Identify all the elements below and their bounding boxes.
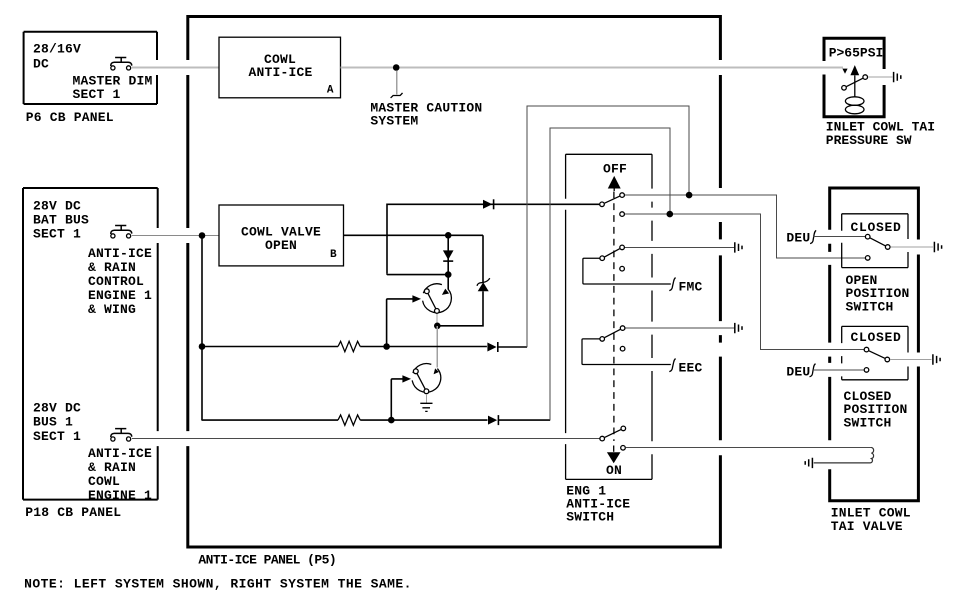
arrow OFF position	[608, 176, 621, 191]
wire left vertical bus	[201, 236, 203, 421]
node K1 feed tap	[383, 343, 390, 350]
wire pole3 ground	[625, 327, 734, 329]
node master caution tap	[393, 64, 400, 71]
open position switch blade	[865, 234, 890, 260]
pressure switch blade	[842, 75, 868, 90]
svg-text:28/16V: 28/16V	[33, 42, 81, 57]
circuit breaker ANTI-ICE COWL	[111, 429, 132, 442]
connector hook EEC	[669, 359, 675, 372]
svg-text:28V DC: 28V DC	[33, 199, 81, 214]
wire P6 breaker to cowl anti-ice box	[132, 67, 219, 69]
svg-text:DC: DC	[33, 57, 49, 72]
bellows pressure sensor	[845, 97, 864, 114]
terminal pole2	[735, 242, 742, 252]
node K2 feed tap	[388, 417, 395, 424]
diode D1	[443, 235, 454, 272]
svg-text:P18 CB PANEL: P18 CB PANEL	[25, 505, 121, 520]
svg-text:DEU: DEU	[786, 364, 810, 379]
svg-text:PRESSURE SW: PRESSURE SW	[826, 133, 912, 148]
svg-text:ANTI-ICE PANEL (P5): ANTI-ICE PANEL (P5)	[198, 553, 336, 568]
label closed position switch	[844, 389, 908, 431]
connector hook DEU upper	[810, 230, 816, 243]
wire cowl valve open output	[344, 234, 484, 236]
zener suppressor Z1	[477, 278, 490, 291]
wire pole3 to EEC	[582, 339, 671, 365]
arrow ON position	[613, 446, 615, 452]
arrowhead K2 feed	[402, 375, 411, 382]
svg-text:SECT 1: SECT 1	[33, 227, 81, 242]
connector hook master caution	[391, 93, 403, 98]
svg-text:& WING: & WING	[88, 302, 136, 317]
eng1 anti-ice switch box	[566, 154, 652, 524]
wire K2 actuate feed	[391, 379, 403, 420]
svg-text:P6 CB PANEL: P6 CB PANEL	[26, 110, 114, 125]
wire K1 actuate feed	[387, 299, 413, 347]
wire loop A to pole1 top contact wire	[527, 106, 689, 347]
terminal pole3	[735, 323, 742, 333]
wire K1 output stub	[436, 314, 438, 323]
wire pressure switch output	[868, 76, 893, 78]
svg-text:SECT 1: SECT 1	[33, 429, 81, 444]
switch pole 3 EEC	[600, 326, 625, 351]
node diode branch	[445, 232, 452, 239]
relay K2	[412, 364, 441, 394]
svg-text:BUS 1: BUS 1	[33, 415, 73, 430]
wire K1 entry curve	[447, 275, 449, 290]
wire cowl anti-ice to pressure switch	[341, 67, 844, 69]
resistor R2	[202, 415, 488, 425]
label inlet cowl tai valve	[831, 506, 911, 535]
wire L drop to diode node	[387, 273, 446, 276]
wire K1 to K2 link	[436, 326, 438, 368]
svg-text:FMC: FMC	[679, 280, 703, 295]
svg-text:B: B	[330, 249, 337, 261]
circuit breaker ANTI-ICE CONTROL	[111, 226, 132, 238]
closed position switch CLOSED box	[842, 326, 908, 379]
relay K1	[423, 284, 452, 314]
connector hook DEU lower	[810, 364, 816, 377]
svg-text:ANTI-ICE: ANTI-ICE	[88, 446, 152, 461]
P6 CB panel box	[24, 32, 157, 125]
arrowhead K1 entry	[442, 289, 449, 295]
svg-text:SYSTEM: SYSTEM	[370, 114, 418, 129]
terminal pressure switch	[894, 72, 901, 82]
svg-text:SWITCH: SWITCH	[566, 510, 614, 525]
svg-text:& RAIN: & RAIN	[88, 460, 136, 475]
label master caution system	[370, 101, 482, 129]
svg-text:CLOSED: CLOSED	[851, 220, 902, 235]
wire bat bus breaker to cowl valve open box	[132, 235, 219, 237]
svg-text:ENGINE 1: ENGINE 1	[88, 488, 152, 503]
wire loop B to pole1 lower contact wire	[550, 128, 670, 420]
diode D2	[483, 199, 494, 209]
valve solenoid coil	[814, 447, 874, 463]
label inlet cowl tai pressure sw	[826, 120, 935, 148]
svg-text:A: A	[327, 84, 334, 96]
node loop B junction	[667, 211, 674, 218]
wire pole1 top contact to open position switch	[624, 195, 865, 258]
resistor R1	[202, 341, 487, 351]
svg-text:OPEN: OPEN	[265, 238, 297, 253]
svg-text:NOTE: LEFT SYSTEM SHOWN, RIGHT: NOTE: LEFT SYSTEM SHOWN, RIGHT SYSTEM TH…	[24, 577, 412, 592]
open position switch CLOSED box	[842, 214, 908, 268]
arrow pressure actuation	[850, 65, 859, 97]
wire L to switch pole 1	[387, 204, 599, 273]
node loop A junction	[686, 192, 693, 199]
switch pole 2 FMC	[600, 245, 624, 271]
svg-text:SWITCH: SWITCH	[844, 416, 892, 431]
arrowhead K1 feed	[412, 295, 421, 302]
svg-text:& RAIN: & RAIN	[88, 260, 136, 275]
cowl valve open light box B	[219, 205, 344, 266]
wire pole4 to valve coil	[626, 446, 872, 448]
wire master caution drop	[396, 71, 398, 95]
P18 CB panel box	[23, 188, 158, 520]
connector hook FMC	[669, 278, 675, 291]
ground below K2	[420, 394, 432, 411]
switch pole 1	[600, 193, 625, 217]
wire pole2 to FMC	[583, 258, 671, 284]
svg-text:P>65PSI: P>65PSI	[829, 45, 884, 60]
arrowhead pressure input	[842, 69, 847, 74]
wire pole1 lower contact to closed position switch	[624, 214, 864, 350]
svg-text:COWL: COWL	[88, 474, 120, 489]
wire closed position switch output	[890, 359, 932, 361]
node R1 left	[199, 343, 206, 350]
svg-text:CLOSED: CLOSED	[851, 330, 902, 345]
wire DEU to open position switch	[814, 236, 866, 238]
terminal valve coil	[805, 458, 812, 468]
svg-text:28V DC: 28V DC	[33, 401, 81, 416]
node K1 output	[434, 323, 441, 330]
inlet cowl tai valve box	[828, 188, 920, 501]
diode D4	[488, 415, 550, 425]
wire pole2 ground	[625, 246, 734, 248]
node junction left vertical	[199, 232, 206, 239]
svg-text:ENGINE 1: ENGINE 1	[88, 288, 152, 303]
arrowhead K2 entry	[434, 368, 439, 374]
svg-text:TAI VALVE: TAI VALVE	[831, 519, 903, 534]
terminal open position switch	[934, 242, 941, 252]
wire open position switch output	[890, 246, 933, 248]
anti-ice panel P5 outline	[186, 17, 722, 548]
svg-text:EEC: EEC	[679, 361, 703, 376]
svg-text:CONTROL: CONTROL	[88, 274, 144, 289]
node relay K1 coil feed	[445, 271, 452, 278]
svg-text:DEU: DEU	[786, 231, 810, 246]
svg-text:ANTI-ICE: ANTI-ICE	[248, 65, 312, 80]
mechanical linkage dashed	[613, 192, 615, 442]
terminal closed position switch	[933, 354, 940, 364]
svg-text:BAT BUS: BAT BUS	[33, 213, 89, 228]
diode D3	[487, 342, 527, 352]
switch pole 4	[600, 426, 626, 450]
svg-text:ANTI-ICE: ANTI-ICE	[88, 246, 152, 261]
label open position switch	[846, 273, 910, 315]
wire DEU lower to closed position switch	[813, 369, 864, 371]
pressure switch box	[823, 38, 886, 117]
svg-text:SWITCH: SWITCH	[846, 300, 894, 315]
circuit breaker MASTER DIM	[111, 58, 132, 71]
cowl anti-ice light box A	[219, 37, 341, 98]
wire bus1 breaker to switch pole 4	[132, 438, 600, 440]
svg-text:ON: ON	[606, 463, 622, 478]
wire zener branch	[440, 235, 483, 325]
closed position switch blade	[864, 347, 889, 372]
svg-text:SECT 1: SECT 1	[73, 87, 121, 102]
svg-text:OFF: OFF	[603, 162, 627, 177]
